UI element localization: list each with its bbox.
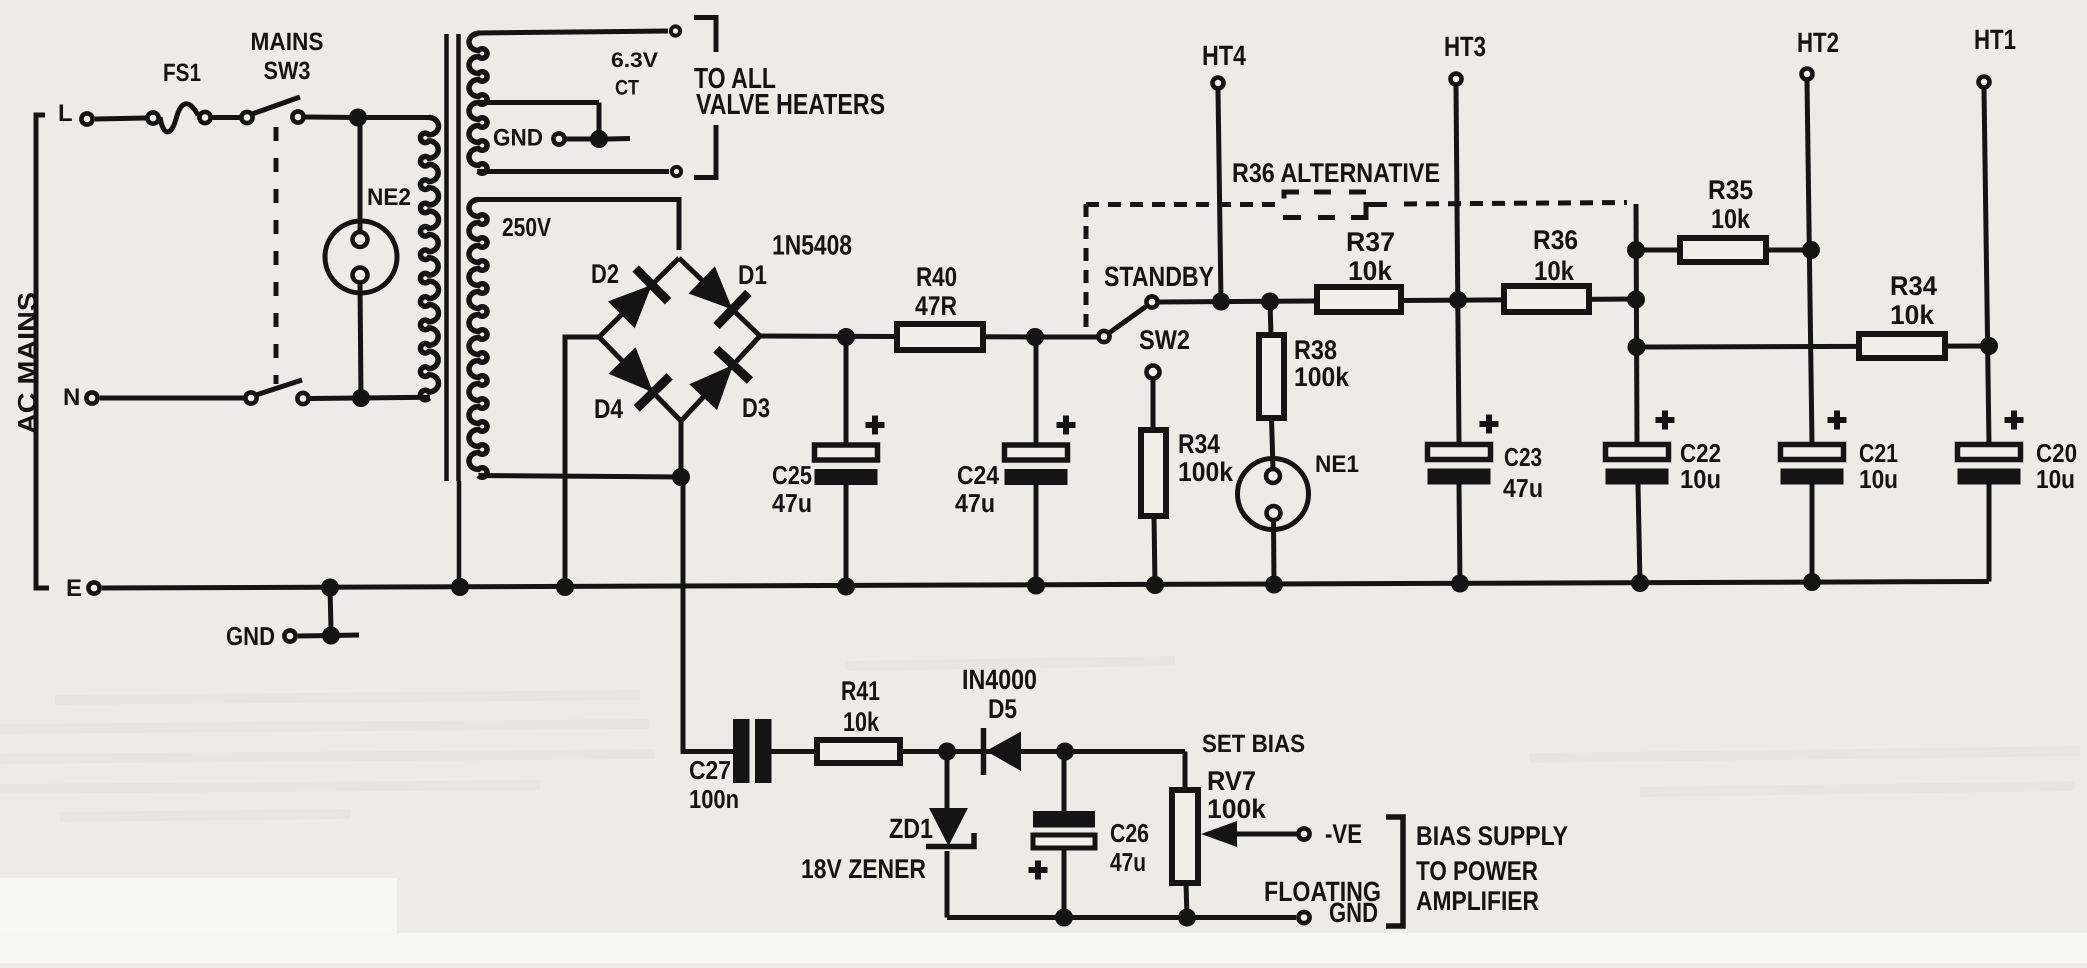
transformer core xyxy=(447,34,459,481)
node C junction xyxy=(672,468,690,486)
node F4 junction xyxy=(1627,291,1645,309)
label FLOATING xyxy=(1264,876,1381,907)
label R35 value 10k xyxy=(1711,204,1751,234)
mech link dashes SW3-SW4 xyxy=(274,127,279,384)
E rail wire xyxy=(102,582,1989,589)
label SW2 xyxy=(1139,325,1190,355)
terminal -VE xyxy=(1298,828,1309,839)
label R36 xyxy=(1533,225,1578,255)
svg-text:HT2: HT2 xyxy=(1797,27,1839,58)
svg-text:R36: R36 xyxy=(1533,225,1578,255)
svg-text:-VE: -VE xyxy=(1325,819,1362,849)
wire RV7 to bottom rail xyxy=(1186,883,1187,918)
svg-text:BIAS SUPPLY: BIAS SUPPLY xyxy=(1416,821,1568,851)
resistor R36 xyxy=(1504,286,1589,312)
wire L to FS1 xyxy=(95,118,146,119)
capacitor C23 xyxy=(1428,445,1491,485)
GND tap junction xyxy=(321,579,339,597)
wire HT3 xyxy=(1456,86,1459,444)
svg-text:100k: 100k xyxy=(1178,457,1234,487)
wire C20 down xyxy=(1987,484,1992,582)
label R36 ALTERNATIVE xyxy=(1232,158,1440,188)
bridge arm B-R xyxy=(681,336,760,421)
C23 plus xyxy=(1480,415,1499,434)
transformer 6.3V winding xyxy=(469,34,487,174)
wire GND terminal to node xyxy=(298,633,331,639)
bias rail wire xyxy=(771,749,1185,754)
label C20 value 10u xyxy=(2036,464,2075,494)
svg-text:GND: GND xyxy=(1329,897,1378,928)
label D5 xyxy=(988,694,1017,724)
capacitor C22 xyxy=(1606,445,1669,485)
dashed box top right segment xyxy=(1404,203,1627,205)
label HT4 xyxy=(1202,40,1246,71)
svg-text:AMPLIFIER: AMPLIFIER xyxy=(1416,886,1539,916)
bridge arm L-B xyxy=(599,337,681,421)
wire R34 to E rail xyxy=(1154,516,1155,585)
middle HT rail xyxy=(1159,299,1636,302)
node E2 junction xyxy=(1026,328,1044,346)
capacitor C21 xyxy=(1781,445,1844,485)
label C21 xyxy=(1859,438,1898,468)
svg-text:1N5408: 1N5408 xyxy=(772,230,852,261)
svg-text:C27: C27 xyxy=(689,755,731,785)
resistor R37 xyxy=(1317,287,1401,312)
wire R34 spare top xyxy=(1151,378,1156,430)
label MAINS xyxy=(251,28,324,56)
label E xyxy=(66,575,82,602)
svg-text:GND: GND xyxy=(493,125,543,152)
label GND (floating) xyxy=(1329,897,1378,928)
wire node C to bias rail xyxy=(683,477,733,752)
label AMPLIFIER xyxy=(1416,886,1539,916)
RV7 wiper arrow xyxy=(1201,821,1297,847)
diode D1 xyxy=(689,266,749,326)
wire core to E rail xyxy=(457,481,462,588)
svg-text:TO POWER: TO POWER xyxy=(1416,856,1538,886)
heater bracket top xyxy=(694,18,716,53)
heater bracket bottom xyxy=(694,125,716,178)
dashed box top left segment xyxy=(1086,202,1279,207)
resistor R34 (100k) xyxy=(1141,430,1166,516)
label HT3 xyxy=(1444,31,1486,62)
terminal R34 spare xyxy=(1147,366,1160,379)
label C27 value 100n xyxy=(689,784,739,814)
C22 plus xyxy=(1656,411,1675,430)
label NE2 xyxy=(367,184,411,211)
node G4 junction (HT1/R34) xyxy=(1980,337,1998,355)
wire SW3 to node A xyxy=(305,115,358,121)
wire C26 to bottom rail xyxy=(1062,848,1067,918)
transformer primary winding xyxy=(420,118,438,400)
vertical rail to C22 xyxy=(1636,204,1637,444)
wire HT2 xyxy=(1807,81,1812,444)
wire C24 up xyxy=(1034,337,1039,445)
node G1 junction (R35) xyxy=(1627,241,1645,259)
svg-text:L: L xyxy=(58,100,73,127)
capacitor C26 xyxy=(1033,811,1095,848)
svg-text:10k: 10k xyxy=(1534,256,1575,286)
svg-text:47u: 47u xyxy=(955,488,995,518)
svg-text:47R: 47R xyxy=(915,291,957,321)
label R38 value 100k xyxy=(1294,362,1350,392)
svg-text:18V ZENER: 18V ZENER xyxy=(801,854,926,884)
RV7 bottom junction xyxy=(1178,909,1196,927)
bias bottom rail xyxy=(947,915,1296,920)
resistor R40 xyxy=(897,324,983,350)
svg-text:AC MAINS: AC MAINS xyxy=(12,292,42,434)
wire 6.3V top to heater terminal xyxy=(477,31,668,33)
wire SW4 to node B xyxy=(310,396,361,402)
node H2 junction (C26) xyxy=(1056,743,1074,761)
wire R40 to SW2 xyxy=(1035,335,1097,340)
AC MAINS bracket xyxy=(36,115,49,588)
label D3 xyxy=(742,393,770,423)
label D4 xyxy=(594,394,623,424)
C26 plus xyxy=(1029,861,1048,880)
svg-text:10u: 10u xyxy=(1859,464,1898,494)
svg-text:R34: R34 xyxy=(1890,271,1937,301)
wire NE2 to node B xyxy=(360,283,361,399)
node B junction xyxy=(352,389,370,407)
terminal N xyxy=(86,392,97,403)
resistor R41 xyxy=(817,740,900,763)
svg-text:RV7: RV7 xyxy=(1207,766,1256,796)
svg-text:10k: 10k xyxy=(1348,256,1393,286)
terminal HT3 xyxy=(1451,74,1462,85)
label RV7 xyxy=(1207,766,1256,796)
svg-text:HT4: HT4 xyxy=(1202,40,1246,71)
bias bracket xyxy=(1386,817,1403,926)
svg-text:100k: 100k xyxy=(1294,362,1350,392)
label C22 value 10u xyxy=(1680,464,1721,494)
svg-text:C24: C24 xyxy=(957,460,999,490)
wire C22 down xyxy=(1638,484,1640,584)
label 6.3V xyxy=(611,49,658,72)
label GND (mains) xyxy=(226,621,275,651)
wire bridge right to R40 rail xyxy=(760,336,1036,337)
potentiometer RV7 xyxy=(1172,790,1198,883)
C23 E-rail junction xyxy=(1451,575,1469,593)
label STANDBY xyxy=(1104,261,1214,292)
wire FS1 to SW3 xyxy=(212,115,240,120)
label D2 xyxy=(591,259,619,289)
label R40 xyxy=(916,262,957,292)
svg-text:SW3: SW3 xyxy=(264,57,311,85)
wire GND terminal to CT node xyxy=(566,137,592,142)
svg-text:10k: 10k xyxy=(1890,300,1935,330)
svg-text:IN4000: IN4000 xyxy=(962,664,1037,695)
svg-text:ZD1: ZD1 xyxy=(889,813,933,844)
switch SW3 xyxy=(241,97,303,123)
terminal E xyxy=(88,582,99,593)
terminal L xyxy=(81,113,92,124)
label 1N5408 xyxy=(772,230,852,261)
label 250V xyxy=(502,212,552,242)
label R41 value 10k xyxy=(843,707,880,737)
core ground junction xyxy=(451,578,469,596)
svg-text:MAINS: MAINS xyxy=(251,28,324,56)
label C21 value 10u xyxy=(1859,464,1898,494)
svg-text:VALVE HEATERS: VALVE HEATERS xyxy=(696,89,885,121)
label C22 xyxy=(1680,438,1721,468)
svg-text:STANDBY: STANDBY xyxy=(1104,261,1214,292)
label VALVE HEATERS xyxy=(696,89,885,121)
label NE1 xyxy=(1315,451,1359,478)
label BIAS SUPPLY xyxy=(1416,821,1568,851)
label TO ALL xyxy=(694,63,776,95)
capacitor C25 xyxy=(815,445,878,485)
GND node stub xyxy=(331,633,359,639)
heater terminal top xyxy=(671,26,680,35)
terminal HT1 xyxy=(1979,77,1990,88)
svg-text:GND: GND xyxy=(226,621,275,651)
capacitor C27 xyxy=(733,719,772,783)
wire bridge bottom to node C xyxy=(679,421,684,477)
neon lamp NE1 xyxy=(1238,459,1309,530)
R36 alternative dashed notch xyxy=(1283,192,1387,218)
node E1 junction xyxy=(837,328,855,346)
svg-text:10k: 10k xyxy=(1711,204,1751,234)
terminal HT2 xyxy=(1802,69,1813,80)
node G3 junction (HT2/R35) xyxy=(1802,241,1820,259)
label R36 value 10k xyxy=(1534,256,1575,286)
svg-text:R40: R40 xyxy=(916,262,957,292)
svg-text:N: N xyxy=(63,384,80,411)
label N xyxy=(63,384,80,411)
node G2 junction (R34 rail) xyxy=(1628,338,1646,356)
wire N to SW4 xyxy=(100,396,244,401)
svg-text:SET BIAS: SET BIAS xyxy=(1202,730,1305,758)
label TO POWER xyxy=(1416,856,1538,886)
wire NE1 to E rail xyxy=(1271,520,1277,585)
wire C25 down xyxy=(844,484,849,587)
wire 250V top to bridge xyxy=(479,200,680,251)
R34 E-rail junction xyxy=(1146,576,1164,594)
C21 E-rail junction xyxy=(1803,573,1821,591)
bridge arm T-R xyxy=(679,258,760,336)
svg-text:CT: CT xyxy=(615,77,639,100)
node F2 junction (R38) xyxy=(1261,293,1279,311)
svg-text:D1: D1 xyxy=(738,260,767,290)
wire ZD1 to bottom rail xyxy=(945,851,950,918)
svg-text:R41: R41 xyxy=(841,676,880,706)
AC MAINS label xyxy=(12,292,42,434)
C20 plus xyxy=(2005,411,2024,430)
fuse FS1 xyxy=(147,104,210,132)
svg-text:NE1: NE1 xyxy=(1315,451,1359,478)
wire node B to transformer xyxy=(361,395,430,401)
label D1 xyxy=(738,260,767,290)
diode D2 xyxy=(608,269,668,329)
node D junction on E rail xyxy=(556,578,574,596)
wire C23 down xyxy=(1459,484,1460,584)
label IN4000 xyxy=(962,664,1037,695)
label C26 xyxy=(1110,818,1149,848)
svg-text:HT1: HT1 xyxy=(1974,24,2016,55)
svg-text:R36 ALTERNATIVE: R36 ALTERNATIVE xyxy=(1232,158,1440,188)
NE1 E-rail junction xyxy=(1265,576,1283,594)
label HT2 xyxy=(1797,27,1839,58)
label L xyxy=(58,100,73,127)
wire HT4 xyxy=(1218,90,1221,302)
CT node stub xyxy=(607,136,630,142)
terminal HT4 xyxy=(1213,78,1224,89)
CT node junction xyxy=(590,130,608,148)
wire C25 up xyxy=(844,337,849,445)
label R35 xyxy=(1708,175,1753,205)
C25 E-rail junction xyxy=(837,578,855,596)
wire 250V bottom to node C xyxy=(479,476,682,478)
label FS1 xyxy=(163,59,201,87)
svg-text:FS1: FS1 xyxy=(163,59,201,87)
label -VE xyxy=(1325,819,1362,849)
wire node A to NE2 xyxy=(358,118,363,233)
wire RV7 top xyxy=(1183,752,1188,791)
node A junction xyxy=(349,109,367,127)
label ZD1 xyxy=(889,813,933,844)
node H1 junction (ZD1) xyxy=(938,743,956,761)
svg-text:10u: 10u xyxy=(1680,464,1721,494)
svg-text:D2: D2 xyxy=(591,259,619,289)
switch SW2 xyxy=(1098,296,1157,342)
wire bridge left to E rail xyxy=(565,337,599,587)
svg-text:D5: D5 xyxy=(988,694,1017,724)
CT tap wire xyxy=(480,103,599,140)
C24 E-rail junction xyxy=(1027,577,1045,595)
label 47R xyxy=(915,291,957,321)
terminal FLOATING GND xyxy=(1298,912,1309,923)
label C25 xyxy=(772,460,812,490)
C22 E-rail junction xyxy=(1631,574,1649,592)
switch SW4 (mains pole 2) xyxy=(245,380,308,404)
wire node A to transformer xyxy=(358,115,430,120)
label R38 xyxy=(1294,335,1337,365)
label C20 xyxy=(2036,438,2077,468)
diode D3 xyxy=(689,349,750,410)
label C25 value 47u xyxy=(772,488,812,518)
bridge arm L-T xyxy=(599,258,679,337)
svg-text:D4: D4 xyxy=(594,394,623,424)
capacitor C20 xyxy=(1958,445,2021,485)
svg-text:C25: C25 xyxy=(772,460,812,490)
svg-text:47u: 47u xyxy=(1503,473,1543,503)
label 18V ZENER xyxy=(801,854,926,884)
label RV7 value 100k xyxy=(1207,794,1267,824)
label R37 xyxy=(1346,227,1395,257)
svg-text:R38: R38 xyxy=(1294,335,1337,365)
terminal GND (heater) xyxy=(553,133,564,144)
svg-text:47u: 47u xyxy=(1110,847,1146,877)
svg-text:10k: 10k xyxy=(843,707,880,737)
label CT xyxy=(615,77,639,100)
R34 output rail xyxy=(1637,346,1990,347)
label SW3 xyxy=(264,57,311,85)
resistor R34 (10k) xyxy=(1859,334,1945,358)
label R37 value 10k xyxy=(1348,256,1393,286)
label R34 value 100k xyxy=(1178,457,1234,487)
node F3 junction (HT3) xyxy=(1449,291,1467,309)
svg-text:250V: 250V xyxy=(502,212,552,242)
label C24 xyxy=(957,460,999,490)
svg-text:C26: C26 xyxy=(1110,818,1149,848)
svg-text:10u: 10u xyxy=(2036,464,2075,494)
svg-text:R37: R37 xyxy=(1346,227,1395,257)
node F1 junction (HT4) xyxy=(1212,293,1230,311)
GND node junction xyxy=(322,627,340,645)
svg-text:HT3: HT3 xyxy=(1444,31,1486,62)
svg-text:47u: 47u xyxy=(772,488,812,518)
resistor R35 xyxy=(1680,238,1766,262)
svg-text:100n: 100n xyxy=(689,784,739,814)
label R34 (10k) xyxy=(1890,271,1937,301)
svg-text:100k: 100k xyxy=(1207,794,1267,824)
svg-text:6.3V: 6.3V xyxy=(611,49,658,72)
label R34 (100k) xyxy=(1178,429,1220,459)
label C24 value 47u xyxy=(955,488,995,518)
label SET BIAS xyxy=(1202,730,1305,758)
label C27 xyxy=(689,755,731,785)
wire 6.3V bottom to heater terminal xyxy=(477,169,669,174)
transformer 250V winding xyxy=(469,200,487,478)
label C23 value 47u xyxy=(1503,473,1543,503)
svg-text:D3: D3 xyxy=(742,393,770,423)
C26 bottom junction xyxy=(1055,909,1073,927)
C21 plus xyxy=(1828,411,1847,430)
wire C21 down xyxy=(1810,484,1815,583)
label R41 xyxy=(841,676,880,706)
heater terminal bottom xyxy=(672,167,681,176)
wire R35 xyxy=(1636,248,1812,253)
label GND (heater) xyxy=(493,125,543,152)
wire R38 to NE1 xyxy=(1272,418,1274,469)
C24 plus xyxy=(1057,416,1076,435)
svg-text:NE2: NE2 xyxy=(367,184,411,211)
wire GND tap xyxy=(330,588,331,630)
capacitor C24 xyxy=(1005,445,1068,485)
label HT1 xyxy=(1974,24,2016,55)
diode D5 xyxy=(984,728,1022,775)
wire C24 down xyxy=(1034,484,1039,586)
svg-text:SW2: SW2 xyxy=(1139,325,1190,355)
dashed box left edge xyxy=(1084,204,1089,333)
resistor R38 xyxy=(1259,335,1284,418)
wire C26 top xyxy=(1062,752,1067,812)
wire HT1 xyxy=(1984,89,1989,444)
label C26 value 47u xyxy=(1110,847,1146,877)
neon lamp NE2 xyxy=(325,221,397,293)
label C23 xyxy=(1504,442,1542,472)
C25 plus xyxy=(866,416,885,435)
svg-text:C23: C23 xyxy=(1504,442,1542,472)
diode D4 xyxy=(608,347,669,408)
terminal GND (mains) xyxy=(284,630,295,641)
wire R38 top xyxy=(1270,302,1271,336)
svg-text:R35: R35 xyxy=(1708,175,1753,205)
zener ZD1 xyxy=(926,752,974,847)
label R34 value 10k xyxy=(1890,300,1935,330)
svg-text:R34: R34 xyxy=(1178,429,1220,459)
svg-text:E: E xyxy=(66,575,82,602)
